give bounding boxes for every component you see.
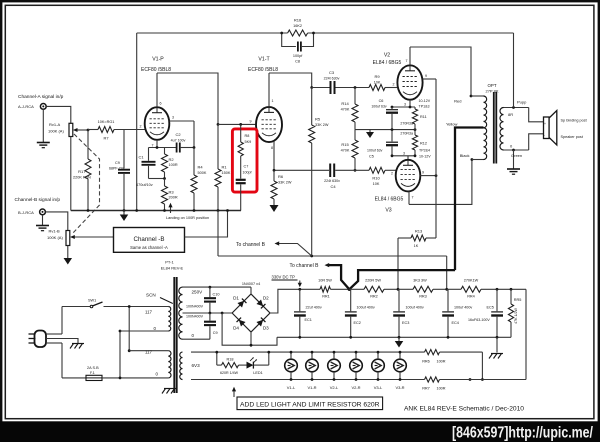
wire secondary top (504, 106, 544, 122)
diode D4 (233, 318, 245, 331)
ADD LED annotation box (237, 397, 383, 410)
svg-text:3: 3 (404, 103, 406, 107)
svg-text:ECF80 /5BL8: ECF80 /5BL8 (248, 67, 278, 73)
svg-text:Channel-A signal in/p: Channel-A signal in/p (18, 94, 64, 100)
label V1-P (152, 57, 164, 63)
svg-text:V1-T: V1-T (258, 57, 270, 63)
svg-text:7: 7 (152, 144, 154, 148)
svg-text:LED1: LED1 (253, 371, 263, 375)
svg-text:V2-L: V2-L (330, 385, 339, 390)
wire secondary bottom (504, 134, 544, 152)
svg-text:OPT: OPT (487, 83, 496, 88)
wire heater top drop (481, 352, 484, 381)
svg-text:R9: R9 (374, 74, 380, 79)
svg-text:100pf: 100pf (243, 171, 252, 175)
svg-text:RR7: RR7 (422, 387, 430, 391)
resistor R4 (191, 148, 207, 211)
svg-text:10K: 10K (373, 182, 380, 186)
label ECF80 /5BL8 (V1-P) (141, 67, 171, 73)
svg-text:PT-1: PT-1 (165, 260, 174, 265)
tube V3 (396, 160, 421, 192)
pin 7 stem V3 plate (409, 191, 414, 204)
svg-text:ANK EL84 REV-E Schematic / Dec: ANK EL84 REV-E Schematic / Dec-2010 (404, 406, 525, 413)
pin 1 stem V1-T (269, 73, 274, 107)
svg-text:SCN: SCN (146, 293, 156, 298)
wire RV1-A bottom to rail (70, 137, 72, 211)
resistor R11 (412, 107, 426, 130)
pin 7 stem V2 plate (406, 47, 411, 65)
heater lamp V2-L (328, 351, 341, 390)
svg-text:C3: C3 (329, 70, 335, 75)
label 270R3a upper (400, 122, 413, 126)
to channel B arrow upper (236, 241, 312, 256)
svg-text:3K3 3W: 3K3 3W (413, 279, 427, 283)
svg-text:EC4: EC4 (452, 321, 459, 325)
svg-text:C7: C7 (244, 165, 249, 169)
resistor RR5 (508, 289, 521, 337)
svg-text:33K 2W: 33K 2W (278, 181, 292, 185)
svg-text:C5: C5 (369, 155, 374, 159)
label 100N400V lower (186, 315, 204, 319)
svg-text:R13: R13 (415, 229, 423, 234)
heater lamp V3-L (372, 351, 385, 390)
pin 2 label V3 (391, 172, 393, 176)
connector A-J-RCA (40, 104, 46, 110)
svg-text:SW1: SW1 (88, 299, 96, 303)
capacitor EC4 (442, 289, 472, 337)
schematic title (404, 406, 525, 413)
svg-text:R5: R5 (315, 117, 321, 122)
label 250V (192, 290, 204, 295)
resistor RR1 (318, 279, 349, 299)
ground below RCA-A (37, 109, 50, 147)
svg-text:3: 3 (403, 152, 405, 156)
thick B+ junction V (325, 263, 456, 291)
wire A-ground drop (217, 211, 219, 257)
label 8R (508, 112, 513, 117)
svg-text:C1: C1 (139, 155, 145, 160)
resistor R3 (162, 179, 178, 211)
wire R13 to B+ node (397, 238, 399, 289)
wire V1-T plate to C3 node (269, 73, 313, 89)
svg-text:Rv1-A: Rv1-A (49, 122, 60, 127)
svg-text:R3: R3 (169, 190, 175, 195)
svg-text:68PF-CN: 68PF-CN (109, 166, 124, 170)
resistor R10 (369, 167, 396, 186)
wire C4 to R10 (335, 169, 369, 171)
wire HV top (183, 286, 252, 289)
label 6V3 (192, 363, 201, 368)
svg-text:To channel B: To channel B (236, 242, 266, 248)
resistor R15 (341, 130, 358, 171)
resistor RR7 (422, 377, 526, 391)
chassis ground mains (70, 344, 84, 349)
RV1-B wiper wire to Channel-B box (70, 235, 114, 239)
wire RCA-B to pot (45, 212, 67, 231)
resistor R9 (369, 74, 397, 91)
svg-text:D1: D1 (233, 296, 239, 301)
resistor R14 (341, 88, 358, 130)
svg-text:470uf/10v: 470uf/10v (136, 183, 153, 187)
label 27P 8K (485, 89, 498, 94)
highlight red box (232, 129, 257, 192)
svg-text:16K2: 16K2 (293, 24, 302, 28)
svg-text:To channel B: To channel B (290, 263, 320, 269)
diode D2 (256, 296, 269, 309)
svg-text:D4: D4 (233, 326, 239, 331)
svg-text:33K 2W: 33K 2W (315, 123, 329, 127)
ground symbol channel A (120, 211, 129, 222)
svg-text:EC1: EC1 (305, 318, 312, 322)
svg-text:V2: V2 (384, 53, 390, 59)
svg-text:470K: 470K (341, 108, 350, 112)
label 0 (secondary) (510, 144, 513, 149)
svg-text:330V DC TP: 330V DC TP (272, 275, 296, 280)
resistor R1 (215, 123, 231, 211)
wire primary parallel link 1 (128, 305, 131, 352)
label 0 HV (192, 333, 195, 338)
PT-1 core (174, 277, 176, 393)
svg-text:500K: 500K (198, 171, 207, 175)
svg-text:224t 630v: 224t 630v (324, 77, 340, 81)
svg-text:EC5: EC5 (487, 306, 494, 310)
wire link rail to RR3-RR4 node (446, 256, 448, 289)
connector B-J-RCA (40, 209, 46, 215)
label TP2&4 (419, 149, 431, 159)
wire V2 plate to OPT red (410, 47, 472, 97)
svg-text:R4: R4 (198, 165, 204, 170)
heater lamp V1-R (306, 351, 319, 390)
svg-text:R1: R1 (222, 165, 228, 170)
Channel-B block (114, 228, 185, 253)
label 100N400V upper (186, 305, 204, 309)
svg-text:2A S.B: 2A S.B (87, 366, 99, 370)
svg-text:ADD LED LIGHT AND LIMIT RESIST: ADD LED LIGHT AND LIMIT RESISTOR 620R (240, 402, 380, 409)
svg-text:100uf 400v: 100uf 400v (406, 306, 424, 310)
wire R5 bottom long drop (311, 143, 313, 256)
to channel B label lower (290, 263, 320, 269)
annotation landing arrow (166, 203, 209, 220)
svg-text:R15: R15 (341, 142, 349, 147)
pin 9 wire V3 screen (420, 171, 437, 178)
svg-text:F.1: F.1 (90, 371, 95, 375)
R18 LED branch left (215, 351, 218, 365)
wire OPT yellow B+ lead (446, 122, 484, 271)
svg-text:R18: R18 (227, 358, 234, 362)
pin 9 wire V2 screen (423, 74, 436, 79)
capacitor C8 (282, 33, 314, 64)
svg-text:270R3a: 270R3a (400, 132, 413, 136)
svg-text:V3-R: V3-R (395, 385, 404, 390)
svg-text:224t 630v: 224t 630v (324, 179, 340, 183)
svg-text:10-12V: 10-12V (419, 99, 431, 103)
svg-text:Landing on 100R position: Landing on 100R position (166, 216, 209, 220)
wire HV 0 tap (183, 338, 210, 340)
wire NFB top rail (137, 33, 514, 211)
heater bottom wire (191, 378, 471, 381)
svg-text:-: - (544, 134, 545, 138)
svg-text:RR4: RR4 (467, 295, 475, 299)
svg-text:Speaker post: Speaker post (561, 135, 584, 139)
svg-text:100uf 63v: 100uf 63v (367, 149, 383, 153)
ground rail PSU (277, 336, 511, 339)
ground symbol PSU (395, 337, 404, 347)
pin 7 stem V1-P (152, 140, 158, 148)
svg-text:100pf: 100pf (293, 54, 303, 58)
tube V2 (397, 65, 422, 99)
PT-1 primary winding lower (168, 351, 171, 378)
ground rail channel A (71, 209, 241, 212)
svg-text:200R: 200R (169, 196, 178, 200)
wire NFB takeoff (513, 33, 515, 108)
wire plug live (46, 307, 62, 335)
svg-text:C4: C4 (330, 184, 336, 189)
wire bridge plus out (270, 289, 320, 313)
capacitor C3 (312, 70, 340, 94)
svg-text:100uf 400v: 100uf 400v (454, 306, 472, 310)
resistor R7 (88, 120, 145, 141)
fuse F1 (62, 366, 168, 381)
ground below RCA-B (36, 215, 49, 231)
label 330V DC TP (272, 275, 298, 281)
svg-text:RR3: RR3 (419, 295, 427, 299)
label Pupp (517, 100, 527, 105)
wire OPT red lead (454, 96, 483, 104)
svg-text:Same as channel -A: Same as channel -A (130, 245, 168, 250)
svg-text:7: 7 (406, 59, 408, 63)
heater lamp V3-R (394, 351, 407, 390)
svg-text:2: 2 (140, 125, 142, 129)
node R16 right (312, 32, 315, 35)
svg-text:R11: R11 (420, 115, 427, 119)
wire primary parallel link 2 (119, 330, 122, 380)
tube V1-P (145, 107, 170, 140)
svg-text:TP1&3: TP1&3 (419, 105, 430, 109)
resistor RR2 (349, 279, 399, 299)
pin 6 stem V1-P plate (157, 73, 162, 107)
label Channel-A signal in/p (18, 94, 64, 100)
chassis ground PT-1 core (162, 389, 176, 394)
node R16 left (280, 32, 283, 35)
svg-text:10R 5W: 10R 5W (318, 279, 332, 283)
svg-text:R17: R17 (78, 169, 86, 174)
svg-text:117: 117 (145, 310, 153, 315)
capacitor C4 (324, 164, 340, 190)
svg-text:Green: Green (511, 153, 522, 158)
wire plate node down (193, 121, 195, 148)
svg-text:1: 1 (272, 99, 274, 103)
ground symbol bias line (366, 130, 374, 138)
label Speaker post (561, 135, 584, 139)
capacitor EC2 (345, 289, 375, 337)
svg-text:EL84 / 6BG5: EL84 / 6BG5 (373, 60, 402, 66)
svg-text:A-J-RCA: A-J-RCA (18, 104, 34, 109)
capacitor EC1 (294, 289, 322, 337)
svg-text:1K: 1K (414, 244, 419, 248)
svg-text:D2: D2 (263, 296, 269, 301)
wire HV mid tap (183, 312, 233, 315)
svg-text:Yellow: Yellow (446, 122, 458, 127)
svg-text:620R 1/4W: 620R 1/4W (220, 371, 239, 375)
capacitor C9 68PF (109, 130, 130, 211)
svg-text:100N400V: 100N400V (186, 305, 204, 309)
svg-text:100R: 100R (169, 163, 178, 167)
heater lamp V1-L (285, 351, 298, 390)
pin 2 label V2 (393, 83, 395, 87)
svg-text:V3: V3 (385, 208, 391, 214)
OPT core (494, 92, 497, 164)
svg-text:6: 6 (160, 102, 162, 106)
svg-text:[846x597]http://upic.me/: [846x597]http://upic.me/ (452, 424, 593, 441)
svg-text:5K9: 5K9 (245, 140, 252, 144)
svg-text:R7: R7 (103, 136, 109, 141)
capacitor EC3 (393, 289, 424, 337)
pin 2 label V1-P (140, 125, 142, 129)
svg-text:EC2: EC2 (354, 321, 361, 325)
pin 3 stem V3 (403, 152, 408, 161)
label SCN (146, 293, 173, 304)
ground arrow below R6 (270, 205, 279, 212)
bottom black bar (0, 421, 600, 442)
svg-text:C6: C6 (379, 99, 384, 103)
svg-text:R14: R14 (341, 101, 349, 106)
svg-text:Rv1-B: Rv1-B (49, 229, 60, 234)
svg-text:47K 1/2W: 47K 1/2W (514, 308, 518, 324)
OPT primary winding (484, 96, 487, 160)
label 1N4007 x4 (242, 282, 260, 286)
svg-text:V1-P: V1-P (152, 57, 164, 63)
tube V1-T (256, 107, 282, 142)
wire B+ rail end drop (525, 289, 527, 379)
label 270R3a lower (400, 132, 413, 136)
wire thin link rail (218, 255, 447, 258)
diode D3 (256, 318, 269, 331)
label V2 (384, 53, 390, 59)
label EL84 REV-E (PT-1) (161, 266, 184, 271)
wire primary tap upper 0 (120, 330, 168, 332)
resistor R13 (398, 229, 436, 249)
resistor R2 (162, 148, 178, 180)
capacitor C7 (236, 156, 252, 211)
svg-text:EL84 / 6BG5: EL84 / 6BG5 (375, 197, 404, 203)
OPT secondary winding (500, 108, 504, 151)
wire screen bus (435, 79, 437, 238)
dashed gang link RV1-A to RV1-B (72, 134, 100, 235)
label ECF80 /5BL8 (V1-T) (248, 67, 278, 73)
svg-text:470K: 470K (341, 149, 350, 153)
svg-text:ECF80 /5BL8: ECF80 /5BL8 (141, 67, 171, 73)
svg-text:2: 2 (393, 83, 395, 87)
svg-text:RR5: RR5 (514, 298, 522, 302)
speaker (544, 111, 557, 146)
wire C3 to R9 (336, 86, 370, 89)
svg-text:TP2&4: TP2&4 (419, 149, 430, 153)
svg-text:V3-L: V3-L (374, 385, 383, 390)
capacitor C5 (367, 130, 398, 159)
resistor R12 (412, 130, 427, 156)
resistor R17 (73, 130, 91, 211)
pin 8 stem V1-T (271, 141, 274, 170)
svg-text:C9: C9 (213, 331, 218, 335)
PT-1 6V3 winding (180, 352, 183, 379)
label Green (511, 153, 522, 158)
label PT-1 (165, 260, 174, 265)
resistor R5 (309, 88, 329, 144)
capacitor C1 (136, 148, 165, 188)
ground below OPT secondary (507, 150, 520, 174)
bridge stem bottom (250, 332, 252, 345)
svg-text:R12: R12 (420, 142, 427, 146)
svg-text:C2: C2 (175, 132, 181, 137)
wire V1-T cathode to C4 line (273, 169, 357, 172)
wire grid line V1-T (218, 120, 256, 126)
mains plug (29, 331, 47, 348)
svg-text:Pupp: Pupp (517, 100, 527, 105)
svg-text:V1-R: V1-R (307, 385, 316, 390)
wire primary tap lower 117 (129, 350, 168, 352)
potentiometer RV1-B (47, 229, 70, 246)
label 117 upper (145, 310, 153, 315)
resistor R16 (288, 18, 308, 37)
capacitor EC5 (468, 289, 503, 337)
resistor RR6 (422, 350, 482, 364)
svg-text:22uf 400v: 22uf 400v (306, 306, 322, 310)
potentiometer RV1-A (48, 122, 73, 137)
label Sp binding post (561, 119, 588, 123)
RV1-A wiper arrow (73, 128, 90, 132)
svg-text:220K R-IN: 220K R-IN (73, 176, 91, 180)
heater top wire (191, 351, 425, 353)
svg-text:100N400V: 100N400V (186, 315, 204, 319)
watermark (452, 424, 593, 441)
svg-text:Red: Red (454, 99, 461, 104)
wire bias ground line (355, 128, 416, 131)
svg-text:270K1W: 270K1W (464, 279, 479, 283)
resistor R6 (271, 170, 292, 205)
svg-text:B-J-RCA: B-J-RCA (18, 210, 34, 215)
svg-text:C8: C8 (295, 60, 300, 64)
pin 3 stem V2 (404, 100, 410, 107)
svg-text:117: 117 (145, 350, 153, 355)
capacitor C6 (371, 99, 398, 131)
svg-text:10K: 10K (374, 81, 381, 85)
svg-text:C9: C9 (115, 161, 120, 165)
svg-text:270R3a: 270R3a (400, 122, 413, 126)
svg-text:Sp binding post: Sp binding post (561, 119, 588, 123)
svg-text:9: 9 (422, 171, 424, 175)
svg-text:100K (A): 100K (A) (48, 129, 64, 134)
svg-text:V1-L: V1-L (287, 385, 296, 390)
svg-text:4u7 100v: 4u7 100v (171, 139, 186, 143)
svg-text:Channel -B: Channel -B (134, 236, 165, 243)
svg-text:6V3: 6V3 (192, 363, 201, 368)
PT-1 HV secondary winding (179, 287, 183, 339)
resistor R8 (238, 124, 251, 156)
ADD LED annotation arrow (232, 387, 236, 397)
svg-text:100uf 63v: 100uf 63v (371, 105, 387, 109)
capacitor C9 psu (204, 313, 218, 339)
svg-text:R8: R8 (245, 134, 250, 138)
wire plug neutral (46, 343, 62, 378)
svg-text:RR1: RR1 (322, 295, 330, 299)
svg-text:8: 8 (271, 146, 273, 150)
svg-text:C10: C10 (213, 293, 220, 297)
svg-text:2: 2 (391, 172, 393, 176)
chassis ground PSU right (489, 337, 503, 358)
wire V2 cathode node (391, 106, 415, 109)
diode D1 (233, 296, 246, 308)
svg-text:R2: R2 (169, 157, 175, 162)
